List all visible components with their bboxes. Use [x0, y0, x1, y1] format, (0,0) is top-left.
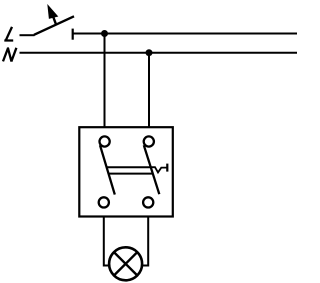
wire box to lamp left: [104, 217, 110, 266]
junction node on L: [101, 30, 108, 37]
coupling bar upper: [107, 166, 151, 168]
detent stop tick: [166, 164, 168, 172]
switch blade left pole: [100, 145, 115, 194]
switch blade right pole: [144, 145, 160, 194]
switch fixed contact tick: [72, 29, 74, 40]
terminal circle top-left: [100, 136, 110, 146]
lamp E1 circle: [109, 247, 142, 280]
wire N line: [20, 52, 298, 54]
switch actuator arrow head: [47, 4, 58, 19]
junction node on N: [146, 49, 153, 56]
wire from L to switch pivot: [20, 34, 35, 36]
lamp cross stroke 2: [114, 252, 137, 275]
detent spring zigzag: [151, 167, 168, 172]
wire from L node down to box: [104, 34, 106, 128]
lamp cross stroke 1: [114, 252, 137, 275]
terminal circle top-right: [144, 136, 154, 146]
switch S blade: [34, 16, 74, 35]
device box outline: [79, 127, 173, 216]
label L: [4, 27, 13, 41]
wire from N node down to box: [148, 53, 150, 127]
terminal circle bottom-left: [99, 197, 109, 207]
label N: [3, 48, 16, 62]
wire box to lamp right: [143, 217, 149, 266]
switch actuator arrow shaft: [52, 14, 56, 25]
wire L line: [73, 33, 297, 35]
terminal circle bottom-right: [143, 197, 153, 207]
coupling bar lower: [109, 173, 153, 175]
